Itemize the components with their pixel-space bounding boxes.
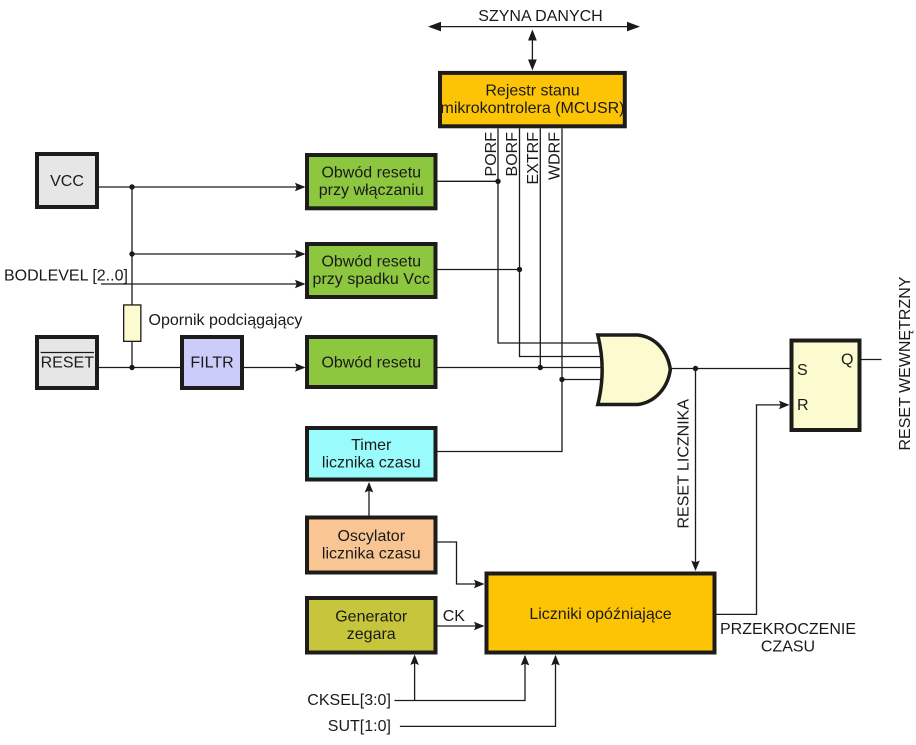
svg-text:Obwód resetu: Obwód resetu [321,254,421,271]
svg-text:Obwód resetu: Obwód resetu [321,165,421,182]
svg-text:SZYNA DANYCH: SZYNA DANYCH [478,8,602,25]
svg-text:RESET WEWNĘTRZNY: RESET WEWNĘTRZNY [897,276,914,450]
svg-text:zegara: zegara [347,626,396,643]
svg-text:PORF: PORF [483,132,500,177]
svg-text:VCC: VCC [50,173,84,190]
svg-text:Oscylator: Oscylator [337,528,405,545]
svg-text:mikrokontrolera (MCUSR): mikrokontrolera (MCUSR) [440,100,624,117]
svg-text:BODLEVEL [2..0]: BODLEVEL [2..0] [4,268,128,285]
svg-text:BORF: BORF [504,132,521,177]
svg-text:CZASU: CZASU [761,638,815,655]
svg-text:przy spadku Vcc: przy spadku Vcc [313,271,430,288]
svg-text:Generator: Generator [335,608,408,625]
svg-text:CKSEL[3:0]: CKSEL[3:0] [307,692,391,709]
svg-text:Liczniki opóźniające: Liczniki opóźniające [529,606,671,623]
svg-text:SUT[1:0]: SUT[1:0] [328,718,391,735]
svg-text:Rejestr stanu: Rejestr stanu [485,82,579,99]
svg-text:RESET: RESET [41,354,95,371]
svg-text:FILTR: FILTR [190,355,233,372]
svg-text:CK: CK [443,608,466,625]
svg-text:Obwód resetu: Obwód resetu [321,355,421,372]
svg-text:Timer: Timer [351,437,392,454]
svg-text:licznika czasu: licznika czasu [322,546,421,563]
svg-text:przy włączaniu: przy włączaniu [319,182,424,199]
svg-text:EXTRF: EXTRF [525,132,542,185]
svg-text:PRZEKROCZENIE: PRZEKROCZENIE [720,621,856,638]
svg-text:Opornik podciągający: Opornik podciągający [149,312,303,329]
svg-text:R: R [797,397,809,414]
svg-text:S: S [797,362,808,379]
svg-text:WDRF: WDRF [547,132,564,180]
svg-text:RESET LICZNIKA: RESET LICZNIKA [676,399,693,529]
svg-text:licznika czasu: licznika czasu [322,454,421,471]
svg-text:Q: Q [841,352,853,369]
